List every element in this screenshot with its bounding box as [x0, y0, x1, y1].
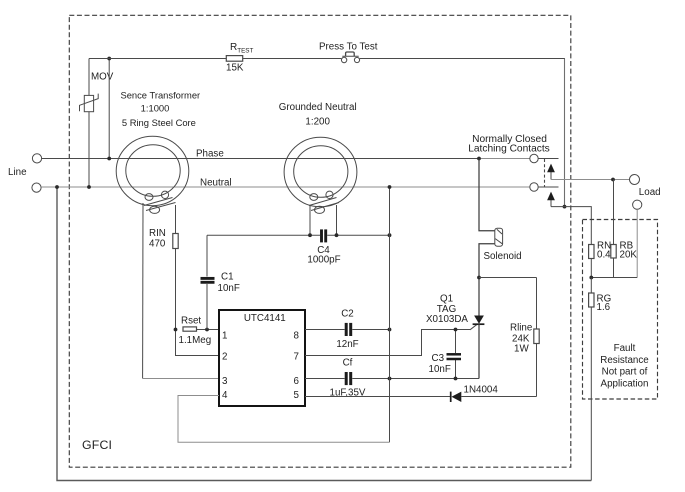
triac Q1 — [473, 278, 485, 379]
svg-text:1W: 1W — [514, 344, 529, 355]
wire neutral line — [41, 186, 530, 188]
junction neutral ground return — [55, 185, 59, 189]
svg-text:5 Ring Steel Core: 5 Ring Steel Core — [122, 117, 196, 128]
wire T1 right lead — [175, 205, 177, 234]
resistor RTEST 15K — [226, 56, 242, 62]
svg-text:RIN: RIN — [149, 228, 166, 239]
junction test to load-neutral — [563, 205, 567, 209]
wire solenoid branch — [479, 159, 495, 278]
svg-text:8: 8 — [294, 331, 300, 342]
wire vertical bus — [389, 187, 391, 442]
wire top test line left — [89, 58, 226, 60]
svg-text:GFCI: GFCI — [82, 438, 112, 452]
capacitor Cf — [346, 372, 351, 385]
wire to load phase — [551, 179, 629, 181]
svg-text:Resistance: Resistance — [600, 355, 649, 366]
resistor Rset 1.1Meg — [183, 327, 197, 331]
svg-text:3: 3 — [222, 376, 228, 387]
wire RIN to Rset — [175, 249, 177, 330]
arrow contact neutral — [547, 192, 555, 207]
wire RN RB bottom — [591, 277, 637, 279]
svg-text:Fault: Fault — [614, 343, 636, 354]
wire C1 branch — [206, 235, 208, 329]
op-amp U1 UTC4141 IC body — [219, 310, 305, 406]
wire pin4 bottom loop — [178, 396, 390, 443]
transformer T2 grounded neutral core — [284, 137, 357, 207]
wire top test line right — [360, 59, 565, 207]
svg-text:C3: C3 — [432, 353, 445, 364]
svg-text:Cf: Cf — [343, 358, 353, 369]
svg-text:7: 7 — [294, 352, 299, 363]
svg-text:1.6: 1.6 — [597, 302, 611, 313]
wire T1 left lead — [142, 203, 144, 379]
switch Press To Test — [341, 52, 359, 63]
capacitor C4 — [322, 229, 326, 242]
node Line phase terminal — [32, 154, 41, 163]
svg-text:1:200: 1:200 — [305, 117, 330, 128]
svg-text:1000pF: 1000pF — [307, 255, 340, 266]
wire pin2 branch — [176, 330, 220, 356]
wire MOV branch vertical — [88, 59, 90, 188]
capacitor C3 — [447, 354, 462, 359]
svg-text:Q1: Q1 — [440, 294, 453, 305]
svg-text:6: 6 — [294, 376, 300, 387]
svg-text:0.4: 0.4 — [597, 250, 611, 261]
wire phase line — [42, 158, 530, 160]
wire pin3 line — [143, 378, 219, 380]
junction Rset left — [174, 328, 178, 332]
wire C4 line — [207, 234, 390, 236]
svg-text:10nF: 10nF — [429, 364, 451, 375]
svg-text:470: 470 — [149, 239, 166, 250]
svg-text:15K: 15K — [226, 63, 244, 74]
svg-text:C2: C2 — [341, 309, 354, 320]
svg-text:UTC4141: UTC4141 — [244, 313, 286, 324]
svg-text:Latching Contacts: Latching Contacts — [468, 144, 550, 155]
svg-text:MOV: MOV — [91, 72, 114, 83]
varistor MOV — [80, 94, 99, 112]
wire T2 left lead — [309, 205, 311, 235]
svg-text:Not part of: Not part of — [602, 367, 648, 378]
wire C3 vertical — [455, 330, 457, 379]
wire Rset to pin1 — [197, 329, 220, 331]
solenoid — [495, 228, 503, 246]
svg-text:2: 2 — [222, 352, 227, 363]
contact linkage dashed — [544, 159, 546, 187]
wire top test line middle — [243, 58, 342, 60]
wire load neutral down — [636, 209, 638, 277]
junction T2 right lead — [335, 233, 339, 237]
arrow contact phase — [547, 164, 555, 180]
junction MOV-neutral — [87, 185, 91, 189]
contact phase — [530, 154, 559, 162]
junction C2 to bus — [388, 328, 392, 332]
svg-text:5: 5 — [294, 390, 300, 401]
svg-text:Neutral: Neutral — [200, 178, 232, 189]
svg-text:4: 4 — [222, 390, 228, 401]
svg-text:10nF: 10nF — [218, 283, 240, 294]
svg-text:Application: Application — [601, 378, 649, 389]
fault resistance dashed box — [583, 220, 658, 400]
diode 1N4004 — [451, 392, 462, 402]
junction C4 to bus — [388, 233, 392, 237]
junction T2 left lead — [308, 233, 312, 237]
junction phase-solenoid — [477, 157, 481, 161]
node Load phase terminal — [630, 175, 640, 185]
node Load neutral terminal — [633, 200, 642, 209]
svg-text:1N4004: 1N4004 — [464, 385, 499, 396]
svg-text:Rline: Rline — [510, 323, 533, 334]
node Line neutral terminal — [32, 183, 41, 192]
wire test branch vertical — [108, 59, 110, 159]
resistor RN 0.4 — [589, 245, 594, 278]
svg-text:12nF: 12nF — [336, 339, 358, 350]
junction C3 top — [454, 328, 458, 332]
wire pin7 to triac gate — [305, 324, 477, 355]
wire ground return — [57, 187, 591, 481]
svg-text:1:1000: 1:1000 — [141, 103, 170, 114]
GFCI dashed boundary box — [69, 15, 571, 467]
junction bus-neutral — [388, 185, 392, 189]
transformer T1 sense core — [116, 136, 189, 205]
svg-text:Solenoid: Solenoid — [484, 251, 522, 262]
T1 winding loops — [144, 191, 176, 213]
junction Cf to bus — [388, 377, 392, 381]
junction test-phase — [107, 157, 111, 161]
junction C3 bottom — [454, 377, 458, 381]
resistor RG 1.6 — [589, 278, 594, 481]
wire pin8 to C2 — [305, 329, 390, 331]
junction RB tap — [611, 178, 615, 182]
svg-text:1: 1 — [222, 331, 227, 342]
svg-text:Phase: Phase — [196, 149, 224, 160]
junction solenoid-Rline-triac — [477, 276, 481, 280]
wire to RN — [551, 207, 591, 245]
svg-text:Load: Load — [639, 187, 661, 198]
resistor RIN 470 — [173, 234, 178, 249]
junction test-top — [107, 57, 111, 61]
svg-text:1.1Meg: 1.1Meg — [179, 335, 212, 346]
svg-text:20K: 20K — [620, 250, 638, 261]
svg-text:X0103DA: X0103DA — [426, 314, 468, 325]
resistor Rline — [534, 278, 539, 397]
wire pin6 Cf line — [305, 378, 479, 380]
junction Rset right — [205, 328, 209, 332]
capacitor C2 — [346, 323, 351, 336]
svg-text:Grounded Neutral: Grounded Neutral — [279, 102, 357, 113]
junction RN-RG — [589, 276, 593, 280]
wire pin5 diode line — [305, 396, 537, 398]
svg-text:Rset: Rset — [181, 316, 201, 327]
wire T2 right lead — [336, 205, 338, 235]
capacitor C1 — [201, 278, 215, 282]
resistor RB 20K — [611, 180, 616, 278]
svg-text:C1: C1 — [221, 272, 234, 283]
svg-text:Press To Test: Press To Test — [319, 42, 378, 53]
svg-text:Sence Transformer: Sence Transformer — [120, 90, 200, 101]
contact neutral — [530, 183, 559, 191]
wire triac top to Rline — [479, 277, 537, 279]
T2 winding loops — [309, 191, 339, 213]
svg-text:Line: Line — [8, 167, 27, 178]
